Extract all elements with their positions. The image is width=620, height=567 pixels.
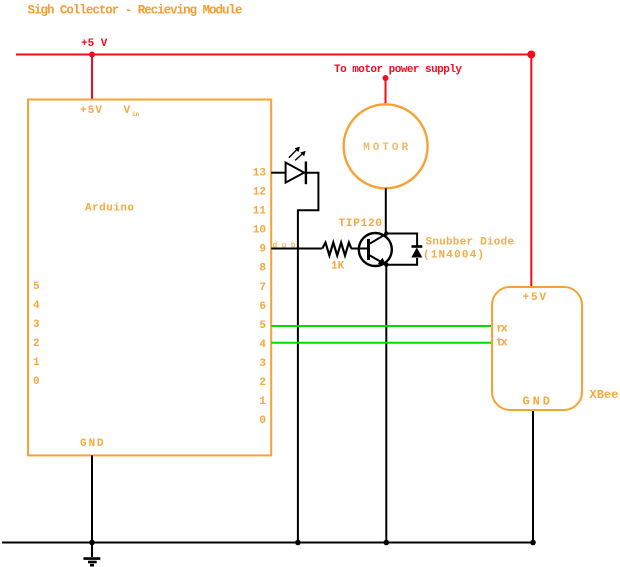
svg-text:10: 10 <box>253 225 266 237</box>
svg-text:Snubber Diode: Snubber Diode <box>426 237 515 249</box>
svg-text:1: 1 <box>33 357 40 369</box>
svg-text:12: 12 <box>253 187 266 199</box>
svg-text:5: 5 <box>33 281 40 293</box>
svg-text:TIP120: TIP120 <box>339 218 383 230</box>
svg-text:0: 0 <box>33 376 40 388</box>
svg-text:rx: rx <box>496 322 508 336</box>
svg-text:8: 8 <box>259 263 266 275</box>
svg-text:13: 13 <box>253 168 267 180</box>
svg-text:7: 7 <box>259 282 266 294</box>
svg-text:1: 1 <box>259 396 266 408</box>
svg-text:tx: tx <box>496 336 508 350</box>
svg-text:4: 4 <box>33 300 40 312</box>
svg-text:(1N4004): (1N4004) <box>423 250 484 262</box>
svg-text:Arduino: Arduino <box>85 203 134 215</box>
svg-text:5: 5 <box>259 320 266 332</box>
svg-text:GND: GND <box>523 395 551 409</box>
svg-text:1K: 1K <box>331 261 345 273</box>
svg-text:V: V <box>124 105 131 117</box>
svg-text:+5V: +5V <box>523 292 547 304</box>
svg-text:3: 3 <box>33 319 40 331</box>
svg-text:6: 6 <box>259 301 266 313</box>
svg-text:4: 4 <box>259 339 266 351</box>
svg-text:0: 0 <box>259 415 266 427</box>
svg-text:2: 2 <box>259 377 266 389</box>
svg-text:2: 2 <box>33 338 40 350</box>
svg-text:Sigh Collector - Recieving Mod: Sigh Collector - Recieving Module <box>28 4 243 18</box>
svg-text:11: 11 <box>253 206 267 218</box>
svg-text:in: in <box>132 111 140 118</box>
svg-text:XBee: XBee <box>590 388 619 402</box>
svg-text:3: 3 <box>259 358 266 370</box>
svg-text:GND: GND <box>80 438 104 450</box>
svg-text:9: 9 <box>259 244 266 256</box>
svg-text:To motor power supply: To motor power supply <box>334 64 462 76</box>
svg-text:+5 V: +5 V <box>81 38 108 50</box>
svg-text:+5V: +5V <box>80 105 102 117</box>
